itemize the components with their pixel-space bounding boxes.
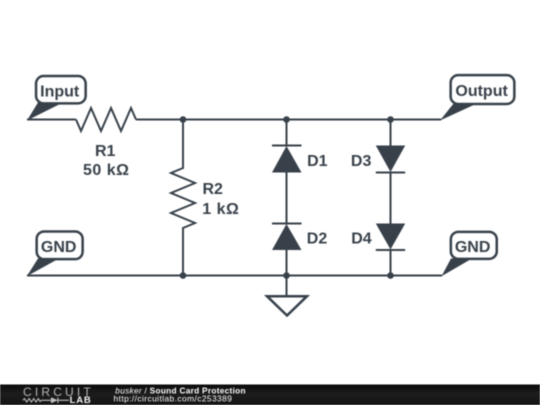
svg-text:http://circuitlab.com/c253389: http://circuitlab.com/c253389 [114,394,233,404]
svg-text:GND: GND [41,239,77,256]
svg-text:D4: D4 [351,231,372,248]
svg-text:D1: D1 [307,153,328,170]
svg-text:D2: D2 [307,231,328,248]
svg-text:Output: Output [455,83,508,100]
svg-text:R2: R2 [203,181,224,198]
svg-text:50 kΩ: 50 kΩ [83,162,129,179]
svg-text:D3: D3 [351,153,372,170]
svg-text:LAB: LAB [70,395,92,405]
svg-text:R1: R1 [95,143,116,160]
svg-text:1 kΩ: 1 kΩ [202,201,239,218]
svg-text:Input: Input [40,83,80,100]
svg-text:GND: GND [455,239,491,256]
